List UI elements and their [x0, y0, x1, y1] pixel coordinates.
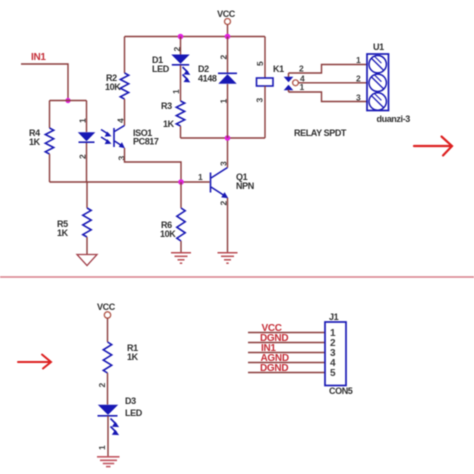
power port VCC (top) — [217, 9, 236, 25]
label R3 value — [161, 101, 175, 129]
svg-text:VCC: VCC — [97, 302, 116, 312]
label R5 value — [57, 219, 69, 238]
svg-text:NPN: NPN — [236, 181, 254, 191]
wire relay coil bottom — [264, 86, 266, 138]
svg-text:1: 1 — [97, 445, 107, 450]
svg-text:R3: R3 — [161, 101, 172, 111]
svg-text:2: 2 — [172, 47, 182, 52]
svg-text:1K: 1K — [163, 119, 175, 129]
svg-text:1: 1 — [219, 99, 229, 104]
svg-text:VCC: VCC — [217, 9, 236, 19]
wire D2 top — [227, 37, 229, 74]
wire D1 top — [180, 37, 182, 55]
junction collector row — [225, 135, 231, 141]
wire VCC stub — [227, 25, 229, 37]
connector U1 duanzi-3 — [367, 54, 389, 111]
wire opto LED cathode down — [86, 143, 88, 182]
junction at VCC column — [225, 34, 231, 40]
svg-text:3: 3 — [356, 93, 361, 103]
wire opto LED anode — [86, 101, 88, 133]
wire J1 pin3 net — [248, 352, 325, 354]
relay K1 contacts — [284, 73, 299, 92]
wire VCC bus horizontal — [125, 36, 266, 38]
wire IN1 — [21, 64, 68, 101]
svg-text:1: 1 — [198, 172, 203, 182]
connector J1 CON5 — [325, 322, 346, 386]
svg-text:duanzi-3: duanzi-3 — [377, 114, 411, 124]
junction at D1 top — [178, 34, 184, 40]
diode D2 4148 — [218, 73, 237, 84]
resistor R5 — [83, 182, 91, 255]
wire D2 bottom — [227, 84, 229, 138]
svg-text:1K: 1K — [127, 352, 139, 362]
svg-text:DGND: DGND — [260, 363, 288, 374]
svg-text:5: 5 — [330, 368, 336, 379]
relay K1 coil — [257, 78, 274, 86]
wire D1 to R3 — [180, 65, 182, 101]
svg-text:2: 2 — [97, 383, 107, 388]
svg-text:1: 1 — [356, 55, 361, 65]
wire J1 pin2 net — [248, 342, 325, 344]
label D2 4148 — [198, 64, 217, 84]
svg-text:2: 2 — [356, 74, 361, 84]
svg-text:1: 1 — [171, 89, 181, 94]
svg-text:IN1: IN1 — [31, 52, 46, 63]
svg-text:PC817: PC817 — [133, 137, 159, 147]
svg-text:1K: 1K — [29, 137, 41, 147]
label R2 value — [105, 73, 121, 92]
svg-text:LED: LED — [125, 408, 143, 418]
diode ISO1 input LED — [78, 132, 96, 142]
wire relay coil top — [264, 37, 266, 79]
label R6 value — [160, 220, 176, 239]
label R1 value — [127, 343, 139, 362]
wire opto pin3 to base row — [125, 148, 182, 182]
arrow marker (left) — [18, 355, 51, 369]
ground (signal) under R5 — [77, 255, 97, 266]
svg-text:2: 2 — [219, 55, 229, 60]
svg-text:J1: J1 — [329, 312, 339, 322]
wire VCC to R1 — [107, 318, 109, 342]
wire K1 pin1 to U1 pin3 — [289, 92, 368, 102]
diode D3 LED — [98, 405, 120, 435]
svg-text:D3: D3 — [125, 396, 136, 406]
svg-text:5: 5 — [255, 61, 265, 66]
ground under D3 — [97, 457, 120, 467]
resistor R2 — [120, 73, 128, 99]
wire IN1 row horizontal — [50, 100, 87, 102]
svg-text:LED: LED — [152, 64, 170, 74]
resistor R1 — [103, 342, 111, 405]
power port VCC (bottom) — [97, 302, 116, 318]
svg-text:3: 3 — [255, 98, 265, 103]
node IN1 — [31, 52, 46, 63]
wire base row horizontal — [50, 181, 210, 183]
label Q1 NPN — [236, 172, 254, 191]
resistor R4 — [45, 101, 53, 183]
wire R2 bottom to opto pin4 — [124, 99, 126, 126]
svg-text:4: 4 — [116, 118, 126, 123]
label D3 LED — [125, 396, 143, 418]
resistor R6 — [177, 182, 185, 253]
svg-text:10K: 10K — [160, 229, 176, 239]
wire Q1 collector — [227, 138, 229, 168]
svg-text:D2: D2 — [198, 64, 209, 74]
resistor R3 — [176, 101, 184, 138]
label D1 LED — [152, 55, 170, 74]
wire J1 pin4 net — [248, 362, 325, 364]
arrow marker (right) — [414, 137, 452, 156]
svg-text:RELAY SPDT: RELAY SPDT — [294, 128, 347, 138]
wire K1 pin4 to U1 pin2 — [298, 82, 367, 84]
svg-text:2: 2 — [299, 64, 304, 74]
ground under R6 — [171, 253, 191, 263]
wire K1 pin2 to U1 pin1 — [289, 65, 368, 74]
diode D1 LED — [171, 55, 190, 83]
ground under Q1 — [218, 253, 238, 263]
label R4 value — [29, 128, 41, 147]
transistor Q1 — [211, 168, 229, 199]
wire J1 pin1 net — [248, 332, 325, 334]
svg-text:CON5: CON5 — [329, 386, 353, 396]
svg-text:1K: 1K — [57, 228, 69, 238]
wire Q1 emitter — [227, 198, 229, 253]
wire R2 top — [124, 37, 126, 74]
junction base row — [178, 179, 184, 185]
junction IN1 node — [65, 98, 70, 103]
opto-coupler ISO1 — [101, 126, 125, 149]
svg-text:U1: U1 — [373, 42, 384, 52]
wire J1 pin5 net — [248, 372, 325, 374]
divider line — [0, 276, 474, 278]
svg-text:10K: 10K — [105, 82, 121, 92]
svg-text:K1: K1 — [273, 64, 284, 74]
label ISO1 PC817 — [133, 128, 159, 147]
svg-text:4148: 4148 — [198, 74, 217, 84]
wire collector row y138 — [181, 137, 266, 139]
wire D3 to ground — [107, 416, 109, 456]
